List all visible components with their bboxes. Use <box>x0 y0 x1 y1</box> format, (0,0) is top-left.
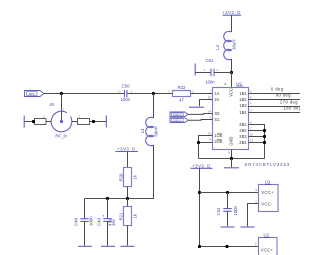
node junction U1 row <box>198 191 201 194</box>
svg-text:+3V3_D: +3V3_D <box>192 163 211 168</box>
ground under IC <box>224 167 239 169</box>
wire U2 rail <box>200 246 259 248</box>
resistor R20 <box>118 168 137 187</box>
svg-text:100n: 100n <box>205 80 215 85</box>
node junction rail-L3 <box>152 92 155 95</box>
svg-text:47: 47 <box>179 97 184 102</box>
capacitor C50 <box>118 84 133 103</box>
power +3V3_D (bottom) <box>191 163 213 168</box>
svg-text:270 deg: 270 deg <box>280 99 298 104</box>
ground under R21 <box>121 245 135 247</box>
svg-text:VCC: VCC <box>228 88 233 97</box>
ground (rotated) left of C51 <box>194 64 196 76</box>
svg-text:C52: C52 <box>216 207 221 215</box>
capacitor C49 (polarized) <box>96 214 116 227</box>
svg-text:J6: J6 <box>49 102 54 107</box>
resistor R21 <box>118 207 137 226</box>
svg-text:2B2: 2B2 <box>239 128 247 133</box>
svg-text:VCC-: VCC- <box>261 201 273 206</box>
wire net 270 deg <box>249 106 301 108</box>
wire C52 drop <box>227 193 229 209</box>
svg-text:GSO-1: GSO-1 <box>173 118 182 122</box>
svg-text:16: 16 <box>224 82 227 86</box>
node junction rail-J6 <box>60 92 63 95</box>
J6 right pad <box>72 115 90 125</box>
IC pin name 2OE <box>214 139 222 144</box>
wire +3V3 to L4 <box>231 15 233 32</box>
svg-text:VCC+: VCC+ <box>261 247 274 252</box>
svg-text:1B1: 1B1 <box>239 91 247 96</box>
capacitor C48 <box>73 216 93 226</box>
IC pin name 1OE <box>214 133 222 138</box>
svg-text:10uH: 10uH <box>232 40 237 50</box>
svg-text:U9: U9 <box>236 81 242 86</box>
wire C52 to ground <box>227 211 229 226</box>
net flag GSO-1 <box>170 118 188 123</box>
wire C49 to ground <box>107 221 109 245</box>
connector J6 <box>49 102 71 139</box>
svg-text:2B3: 2B3 <box>239 134 247 139</box>
wire +3V3 down <box>199 168 201 246</box>
wire GSO-0 to S0 <box>188 113 213 116</box>
net flag GSO-0 <box>170 112 188 117</box>
capacitor C52 <box>216 205 238 215</box>
U1 refdes <box>265 180 272 185</box>
svg-text:L4: L4 <box>215 45 220 50</box>
port flag BPF <box>25 91 45 97</box>
svg-text:2A: 2A <box>214 97 219 102</box>
node junction row-C49 <box>106 197 109 200</box>
svg-text:90 deg: 90 deg <box>276 92 291 97</box>
wire right pad to ground <box>90 121 107 123</box>
svg-text:BPF: BPF <box>29 92 35 96</box>
wire gnd to C51 <box>195 72 211 74</box>
wire C51 to junction <box>214 72 231 74</box>
wire main rail left <box>44 93 124 95</box>
node junction 2B3 <box>263 135 266 138</box>
wire junction to VCC pin <box>231 73 233 88</box>
wire net 0 deg <box>249 93 301 95</box>
wire left pad to ground <box>24 121 34 123</box>
wire GSO-1 to S1 <box>188 119 213 122</box>
svg-text:1OE: 1OE <box>214 133 222 138</box>
wire L3 bottom to row <box>85 145 154 199</box>
svg-text:SN74CBTLV3253: SN74CBTLV3253 <box>245 162 291 167</box>
node junction right pad <box>92 120 95 123</box>
svg-text:C50: C50 <box>122 84 130 89</box>
svg-text:L3: L3 <box>140 128 145 133</box>
wire 2B2 <box>249 130 265 132</box>
power +3V3_D (top) <box>222 10 241 15</box>
svg-text:C49: C49 <box>96 218 101 226</box>
svg-text:U2: U2 <box>264 233 270 238</box>
svg-text:1A: 1A <box>214 91 219 96</box>
ground under U1 VCC- <box>241 226 255 228</box>
svg-text:U1: U1 <box>265 180 271 185</box>
svg-text:R21: R21 <box>118 212 123 220</box>
wire to U1 VCC+ <box>200 192 259 194</box>
wire L4 to junction <box>231 59 233 73</box>
node junction GND <box>230 157 233 160</box>
power +3V3_D (left) <box>116 147 139 152</box>
wire net 180 deg <box>249 112 301 114</box>
node junction OE <box>197 141 200 144</box>
svg-text:R20: R20 <box>118 173 123 181</box>
svg-text:1B4: 1B4 <box>239 110 247 115</box>
svg-text:56nH: 56nH <box>154 126 159 136</box>
svg-text:180 deg: 180 deg <box>284 105 300 110</box>
svg-text:1B3: 1B3 <box>239 103 247 108</box>
inductor L4 <box>215 31 237 59</box>
wire R21 to ground <box>127 226 129 246</box>
wire main rail mid <box>127 93 172 95</box>
svg-text:+3V3_D: +3V3_D <box>222 10 241 15</box>
node junction left pad <box>32 120 35 123</box>
wire 2B4 <box>249 142 265 144</box>
wire J6 drop <box>61 94 63 122</box>
wire C49 drop <box>107 199 109 219</box>
svg-text:2B1: 2B1 <box>239 122 247 127</box>
ground under 2A <box>189 106 204 108</box>
svg-text:RF_in: RF_in <box>55 134 67 139</box>
wire 2A to ground <box>200 100 213 107</box>
wire 2B1 <box>249 125 265 159</box>
inductor L3 <box>140 117 158 145</box>
node junction 2B4 <box>263 141 266 144</box>
svg-text:+3V3_D: +3V3_D <box>117 147 136 152</box>
svg-text:2OE: 2OE <box>214 139 222 144</box>
J6 left pad <box>35 115 52 125</box>
svg-text:0 deg: 0 deg <box>271 86 284 91</box>
capacitor C51 <box>204 58 219 85</box>
svg-text:16v: 16v <box>111 218 116 226</box>
op-amp power U2 box <box>259 238 278 255</box>
wire L3 top <box>153 94 155 119</box>
svg-text:R22: R22 <box>178 85 186 90</box>
wire net 90 deg <box>249 99 301 101</box>
op-amp power U1 box <box>259 185 279 212</box>
wire GND pin drop <box>231 150 233 159</box>
wire GND to ground symbol <box>231 159 233 168</box>
svg-text:1B2: 1B2 <box>239 97 247 102</box>
node junction U2 rail left <box>198 245 201 248</box>
svg-text:C48: C48 <box>73 218 78 226</box>
wire R22 to IC pin 1A <box>191 93 213 95</box>
wire 2OE left <box>199 142 213 144</box>
ground (rotated) left of J6 <box>23 116 25 128</box>
svg-text:GSO-0: GSO-0 <box>173 113 182 117</box>
svg-text:C51: C51 <box>206 58 214 63</box>
wire ground rail bottom <box>199 158 265 160</box>
resistor R22 <box>168 85 194 103</box>
svg-text:100n: 100n <box>121 97 131 102</box>
wire R20 to row <box>127 187 129 199</box>
wire 2B3 <box>249 136 265 138</box>
wire C48 to ground <box>84 221 86 245</box>
svg-text:100n: 100n <box>89 216 94 226</box>
wire +3V3_D to R20 <box>127 152 129 168</box>
node junction C52 <box>226 191 229 194</box>
ground (rotated) right of J6 <box>105 116 107 128</box>
svg-text:100n: 100n <box>233 205 238 215</box>
wire 1OE left <box>199 136 213 159</box>
ground under C48 <box>78 245 92 247</box>
svg-text:VCC+: VCC+ <box>261 190 274 195</box>
svg-text:2B4: 2B4 <box>239 140 247 145</box>
U2 refdes <box>264 233 271 238</box>
ground under C52 <box>221 226 235 228</box>
svg-text:S0: S0 <box>214 111 220 116</box>
node junction U2 rail mid <box>225 245 228 248</box>
IC U9 refdes <box>236 81 243 86</box>
wire row to R21 <box>127 199 129 207</box>
wire C48 drop <box>84 199 86 219</box>
svg-text:GND: GND <box>228 136 233 145</box>
IC U9 box <box>213 88 249 150</box>
node junction VCC <box>230 71 233 74</box>
ground under C49 <box>101 245 115 247</box>
svg-text:S1: S1 <box>214 117 220 122</box>
node junction row-R20 <box>126 197 129 200</box>
node junction 2B2 <box>263 129 266 132</box>
wire U1 VCC- to ground <box>248 204 259 227</box>
